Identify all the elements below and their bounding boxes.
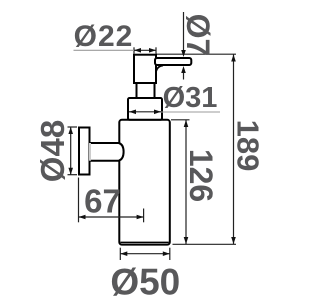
spout fillet (156, 66, 163, 72)
svg-text:Ø31: Ø31 (163, 82, 218, 114)
dim Ø48: top arrow (68, 127, 73, 134)
svg-text:Ø48: Ø48 (34, 120, 71, 182)
dim Ø7: upper arrow (down) (181, 50, 186, 57)
dim Ø50: right arrow (163, 251, 170, 256)
bottle base inner line (121, 241, 169, 243)
dim 67: line (79, 216, 144, 218)
dim Ø7: lower line (183, 73, 185, 80)
dim Ø7: upper line (183, 12, 185, 51)
dim Ø48: bottom arrow (68, 168, 73, 175)
dim Ø31: leader line (161, 111, 220, 113)
spout (155, 58, 191, 65)
dim 126: line (185, 120, 187, 245)
flange arm with rounded cap (90, 143, 124, 161)
dim Ø50: left arrow (120, 251, 127, 256)
bottle body (119, 120, 170, 245)
arm left edge cover (89, 143, 91, 161)
dim Ø50: line (120, 253, 170, 255)
extension line 189/126 bottom (173, 243, 237, 245)
collar (Ø31 section) (128, 98, 162, 120)
extension line 189 top (156, 53, 236, 55)
dim Ø31: right arrow (154, 110, 161, 115)
dim Ø31: shaft inside collar (129, 111, 161, 113)
dim Ø22: leader line (74, 49, 135, 51)
svg-text:Ø7: Ø7 (180, 14, 216, 57)
dim 67: flange extension line (78, 178, 80, 223)
dim 189: bottom arrow (231, 237, 236, 244)
dim 67: right arrow (137, 215, 144, 220)
dim Ø48: line (70, 127, 72, 175)
dim 126: bottom arrow (184, 237, 189, 244)
dim Ø50: extension lines (119, 248, 121, 260)
dim 67: center tick (143, 209, 145, 223)
svg-text:67: 67 (84, 183, 121, 220)
svg-text:189: 189 (231, 120, 266, 172)
dim Ø31: left arrow (129, 110, 136, 115)
svg-text:Ø50: Ø50 (110, 262, 180, 300)
dim 189: line (233, 54, 235, 244)
dim 189: top arrow (231, 55, 236, 62)
dim Ø22: right arrow (149, 48, 156, 53)
svg-text:Ø22: Ø22 (74, 20, 134, 53)
svg-text:126: 126 (183, 149, 219, 202)
wall flange (Ø48 disc) (79, 128, 90, 175)
dim Ø22: left arrow (134, 48, 141, 53)
neck tier (137, 83, 155, 98)
extension line 126 top (171, 119, 190, 121)
dim 126: top arrow (184, 120, 189, 127)
dim Ø48: ticks (68, 126, 78, 128)
dim Ø22: extension ticks above stem (133, 47, 135, 53)
pump stem (134, 55, 156, 83)
dim Ø7: lower arrow (up) (181, 66, 186, 73)
dim Ø22: shaft (134, 49, 156, 51)
dim 67: left arrow (79, 215, 86, 220)
